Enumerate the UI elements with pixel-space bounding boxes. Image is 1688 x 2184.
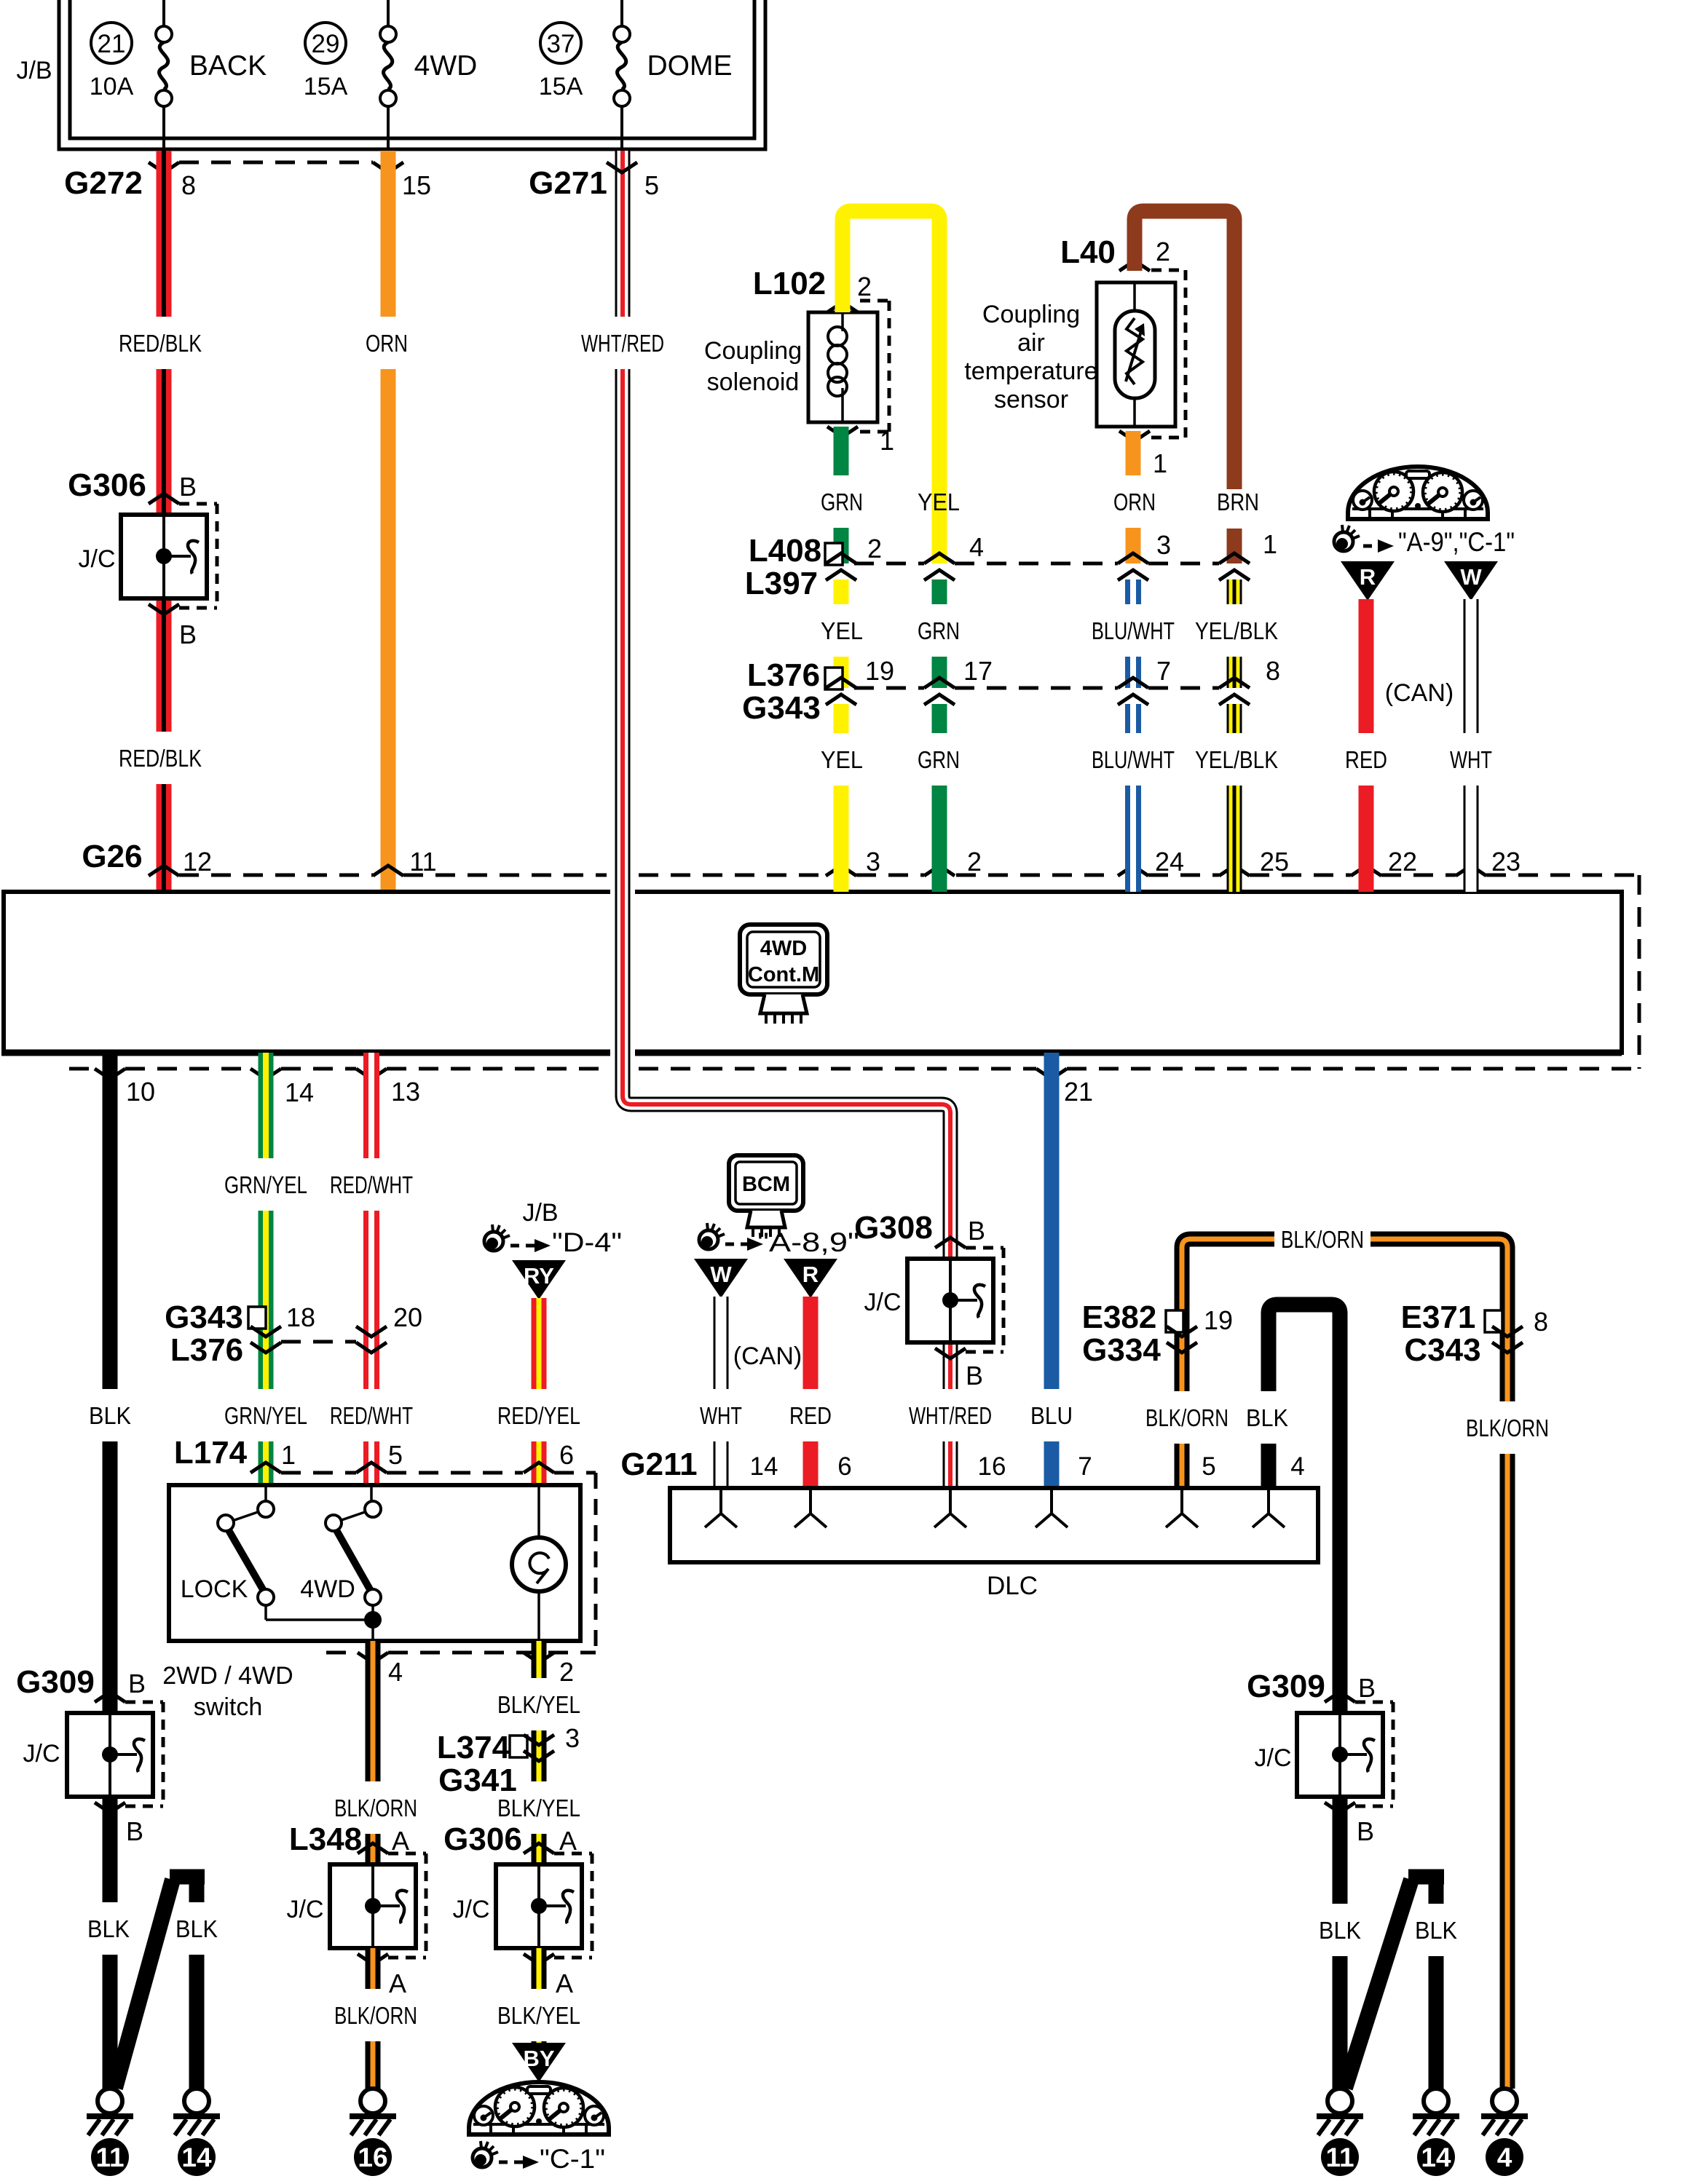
- svg-text:RED/BLK: RED/BLK: [119, 745, 202, 772]
- G26 pin 12: [149, 866, 179, 876]
- module pin 10: [95, 1069, 125, 1079]
- wire GRN/YEL (pin 14 to switch pin 1): [259, 1053, 274, 1158]
- svg-text:R: R: [1360, 564, 1376, 590]
- wire RED/YEL (RY to switch pin 6): [532, 1298, 547, 1389]
- svg-text:DLC: DLC: [987, 1572, 1038, 1600]
- G26 pin 22: [1351, 866, 1381, 876]
- svg-text:YEL: YEL: [821, 617, 863, 644]
- svg-text:18: 18: [286, 1302, 315, 1332]
- wire BRN hook (L40 pin 2 up and over): [1135, 211, 1234, 489]
- module dashed outline: [179, 874, 373, 877]
- ground 11 right: [1328, 2089, 1352, 2113]
- svg-text:15A: 15A: [539, 73, 583, 100]
- svg-text:1: 1: [281, 1440, 296, 1470]
- svg-text:J/C: J/C: [287, 1896, 324, 1923]
- wire BLU/WHT (to G26 pin 24): [1125, 704, 1141, 733]
- svg-text:J/C: J/C: [453, 1896, 490, 1923]
- junction block J/B: [59, 0, 765, 149]
- wire BLU (pin 21 to DLC pin 7): [1044, 1053, 1060, 1389]
- svg-text:L408: L408: [749, 533, 821, 569]
- svg-text:"A-8,9": "A-8,9": [757, 1227, 859, 1257]
- svg-text:29: 29: [312, 30, 340, 58]
- svg-text:G343: G343: [165, 1299, 243, 1335]
- svg-text:24: 24: [1155, 847, 1184, 877]
- fuse 29 15A 4WD: [387, 0, 390, 27]
- svg-text:B: B: [128, 1669, 146, 1698]
- svg-text:BLK: BLK: [1246, 1404, 1288, 1431]
- wire WHT/RED (fuse 37 DOME to DLC pin 16): [623, 154, 950, 1488]
- svg-text:G271: G271: [529, 165, 607, 201]
- svg-text:14: 14: [750, 1452, 778, 1481]
- switch common wire: [266, 1618, 373, 1621]
- svg-text:W: W: [1460, 564, 1482, 590]
- svg-text:10: 10: [126, 1077, 155, 1107]
- wire BLK (DLC pin 4 up over to G309 right): [1261, 1444, 1277, 1488]
- svg-text:"C-1": "C-1": [540, 2144, 605, 2174]
- svg-text:G26: G26: [82, 839, 142, 874]
- svg-text:21: 21: [98, 30, 126, 58]
- 4WD control module box: [4, 892, 1622, 1053]
- svg-text:3: 3: [1156, 530, 1171, 560]
- svg-text:G308: G308: [854, 1210, 933, 1246]
- svg-text:BLU/WHT: BLU/WHT: [1092, 617, 1175, 644]
- svg-text:Coupling: Coupling: [982, 301, 1080, 328]
- svg-text:L376: L376: [747, 657, 820, 693]
- svg-text:G334: G334: [1082, 1332, 1161, 1368]
- coupling solenoid L102 box: [808, 312, 877, 422]
- svg-text:ORN: ORN: [1113, 488, 1156, 515]
- triangle BY: [512, 2043, 566, 2082]
- svg-text:WHT: WHT: [1450, 746, 1492, 773]
- svg-text:4: 4: [1290, 1452, 1304, 1481]
- svg-text:BLU/WHT: BLU/WHT: [1092, 746, 1175, 773]
- svg-text:15A: 15A: [304, 73, 348, 100]
- svg-text:16: 16: [358, 2143, 387, 2172]
- svg-text:Coupling: Coupling: [704, 337, 802, 365]
- svg-text:13: 13: [391, 1077, 420, 1107]
- svg-text:G306: G306: [68, 467, 146, 503]
- svg-text:(CAN): (CAN): [733, 1342, 802, 1370]
- wire RED/WHT (pin 13 to switch pin 5): [363, 1053, 379, 1158]
- svg-text:2: 2: [857, 272, 872, 301]
- svg-text:BLK/ORN: BLK/ORN: [1145, 1404, 1228, 1431]
- module pin 21: [1036, 1069, 1067, 1079]
- 2WD/4WD switch box: [169, 1485, 580, 1641]
- svg-text:4WD: 4WD: [414, 50, 478, 82]
- svg-text:L376: L376: [170, 1332, 243, 1368]
- svg-text:YEL: YEL: [821, 746, 863, 773]
- DLC box: [670, 1488, 1318, 1562]
- svg-text:1: 1: [1263, 529, 1277, 559]
- wire YEL/BLK (to G26 pin 25): [1227, 704, 1242, 733]
- svg-text:YEL/BLK: YEL/BLK: [1195, 617, 1278, 644]
- svg-text:air: air: [1017, 329, 1045, 357]
- svg-text:1: 1: [1153, 448, 1167, 478]
- svg-text:J/C: J/C: [23, 1740, 60, 1768]
- wire BLK (pin 10 to G309): [103, 1053, 118, 1389]
- svg-text:WHT: WHT: [700, 1402, 742, 1429]
- svg-text:14: 14: [1421, 2143, 1451, 2172]
- svg-text:3: 3: [565, 1723, 580, 1753]
- L40 pin 1: [1119, 431, 1150, 441]
- svg-text:BLK: BLK: [1319, 1917, 1361, 1944]
- svg-text:BLU: BLU: [1030, 1402, 1073, 1429]
- svg-text:8: 8: [1534, 1307, 1548, 1337]
- svg-text:15: 15: [402, 170, 431, 200]
- wire BLK (G309 right to ground 11): [1333, 1797, 1348, 1904]
- svg-text:BCM: BCM: [742, 1173, 790, 1196]
- svg-text:11: 11: [95, 2143, 124, 2172]
- svg-text:10A: 10A: [90, 73, 134, 100]
- wire YEL/BLK (L408 to L376): [1227, 579, 1242, 604]
- G26 pin 24: [1118, 866, 1148, 876]
- svg-text:BLK/ORN: BLK/ORN: [334, 1795, 417, 1821]
- DLC pin 7: [1050, 1490, 1053, 1514]
- svg-text:RED/BLK: RED/BLK: [119, 330, 202, 357]
- svg-text:12: 12: [183, 847, 212, 877]
- eye reference C-1: [473, 2148, 492, 2167]
- triangle R: [1341, 561, 1395, 601]
- ground 11 left: [98, 2089, 122, 2113]
- wire YEL (L408 to L376): [834, 579, 849, 604]
- svg-text:14: 14: [285, 1077, 314, 1107]
- svg-text:2: 2: [967, 847, 982, 877]
- svg-text:B: B: [179, 620, 197, 649]
- DLC pin 5: [1180, 1490, 1183, 1514]
- wire YEL hook (L102 pin 2 up and over): [843, 211, 939, 563]
- wire ORN (fuse 29 4WD to pin 11): [381, 151, 396, 317]
- svg-text:WHT/RED: WHT/RED: [581, 330, 664, 357]
- DLC pin 14: [719, 1490, 722, 1514]
- svg-text:G272: G272: [64, 165, 143, 201]
- svg-text:6: 6: [559, 1440, 574, 1470]
- triangle R mid: [784, 1259, 837, 1298]
- fuse 37 15A DOME: [620, 0, 623, 27]
- svg-text:A: A: [559, 1826, 577, 1856]
- svg-text:4: 4: [1497, 2143, 1513, 2172]
- svg-text:L102: L102: [753, 266, 826, 301]
- wire WHT CAN (to G26 pin 23): [1464, 599, 1479, 733]
- switch lower connector row: [326, 1651, 356, 1655]
- svg-text:WHT/RED: WHT/RED: [909, 1402, 992, 1429]
- svg-text:17: 17: [963, 656, 993, 686]
- svg-text:11: 11: [1325, 2143, 1354, 2172]
- svg-text:BLK: BLK: [87, 1915, 130, 1942]
- ground 16: [360, 2089, 385, 2113]
- wire BLK/ORN (L348 to ground 16): [366, 1948, 381, 1989]
- svg-text:"A-9","C-1": "A-9","C-1": [1398, 527, 1515, 557]
- svg-text:1: 1: [880, 426, 894, 456]
- L102 pin 1: [827, 427, 858, 437]
- G26 pin 3: [826, 866, 856, 876]
- svg-text:4WD: 4WD: [300, 1575, 355, 1603]
- svg-text:G343: G343: [742, 690, 821, 726]
- svg-text:BLK: BLK: [89, 1402, 131, 1429]
- svg-text:RED/YEL: RED/YEL: [497, 1402, 580, 1429]
- svg-text:8: 8: [181, 170, 196, 200]
- ground 14 right: [1424, 2089, 1448, 2113]
- svg-text:GRN/YEL: GRN/YEL: [224, 1402, 307, 1429]
- G26 pin 2: [924, 866, 955, 876]
- wire BLK (G309 to ground 11): [103, 1797, 118, 1902]
- wire BLK (right ground 14 jog): [1429, 1877, 1444, 1904]
- wire BLK/YEL (G306 to BY): [532, 1948, 547, 1989]
- svg-text:W: W: [710, 1262, 732, 1287]
- G26 pin 23: [1456, 866, 1486, 876]
- wire BLK/ORN (DLC pin 5 up over to ground 4): [1175, 1444, 1190, 1488]
- triangle RY: [512, 1260, 566, 1299]
- svg-text:8: 8: [1266, 656, 1280, 686]
- instrument cluster icon bottom: [469, 2082, 609, 2134]
- wire YEL (L376 to G26 pin 3): [834, 704, 849, 733]
- DLC pin 4: [1267, 1490, 1270, 1514]
- svg-text:sensor: sensor: [994, 386, 1068, 414]
- wire RED/BLK (fuse 21 BACK to 4WD controller pin 12): [157, 151, 172, 317]
- wire BLK/YEL (switch pin 2 to G306): [532, 1641, 547, 1678]
- svg-text:BLK/ORN: BLK/ORN: [1281, 1226, 1364, 1253]
- svg-text:L374: L374: [437, 1730, 510, 1765]
- svg-text:YEL/BLK: YEL/BLK: [1195, 746, 1278, 773]
- svg-text:7: 7: [1156, 656, 1171, 686]
- svg-text:RED: RED: [789, 1402, 832, 1429]
- wire WHT CAN (W to DLC pin 14): [714, 1297, 729, 1389]
- svg-text:E371: E371: [1401, 1299, 1476, 1335]
- svg-text:14: 14: [181, 2143, 212, 2172]
- svg-text:GRN: GRN: [918, 746, 960, 773]
- wire BLU/WHT (L408 to L376): [1125, 579, 1141, 604]
- svg-text:solenoid: solenoid: [707, 368, 800, 396]
- wire GRN (L102 pin 1 to L408 pin 2): [834, 427, 849, 475]
- 4WD Cont.M icon: [740, 925, 827, 994]
- svg-text:B: B: [1358, 1673, 1376, 1703]
- svg-text:BLK/ORN: BLK/ORN: [1466, 1415, 1549, 1441]
- svg-text:BLK/YEL: BLK/YEL: [497, 2002, 580, 2029]
- svg-text:LOCK: LOCK: [181, 1575, 248, 1603]
- svg-text:RED/WHT: RED/WHT: [330, 1402, 413, 1429]
- svg-text:20: 20: [393, 1302, 422, 1332]
- svg-text:RY: RY: [524, 1263, 554, 1289]
- wire GRN (L376 to G26 pin 2): [932, 704, 947, 733]
- svg-text:J/C: J/C: [79, 545, 116, 573]
- svg-text:BLK: BLK: [175, 1915, 218, 1942]
- svg-text:19: 19: [865, 656, 894, 686]
- svg-text:G211: G211: [620, 1447, 697, 1482]
- svg-text:Cont.M: Cont.M: [748, 963, 819, 986]
- svg-text:A: A: [392, 1826, 409, 1856]
- svg-text:23: 23: [1491, 847, 1521, 877]
- svg-text:GRN/YEL: GRN/YEL: [224, 1171, 307, 1198]
- ground 4 right: [1492, 2089, 1517, 2113]
- svg-text:16: 16: [978, 1452, 1006, 1481]
- svg-text:J/C: J/C: [864, 1289, 902, 1316]
- svg-text:5: 5: [388, 1440, 403, 1470]
- svg-text:BACK: BACK: [189, 50, 267, 82]
- svg-text:3: 3: [866, 847, 880, 877]
- switch LOCK contacts: [264, 1485, 267, 1501]
- svg-text:G309: G309: [1247, 1669, 1325, 1704]
- module pin 14: [251, 1069, 281, 1079]
- eye reference A-9 C-1: [1334, 532, 1353, 551]
- svg-text:C343: C343: [1404, 1332, 1480, 1368]
- G26 pin 11: [373, 866, 403, 876]
- svg-text:2WD / 4WD: 2WD / 4WD: [162, 1662, 293, 1690]
- svg-text:A: A: [556, 1969, 573, 1998]
- DLC pin 6: [809, 1490, 812, 1514]
- svg-text:BY: BY: [523, 2046, 554, 2071]
- svg-text:L348: L348: [289, 1821, 362, 1857]
- svg-text:5: 5: [1202, 1452, 1215, 1481]
- svg-text:11: 11: [409, 847, 436, 877]
- svg-text:37: 37: [547, 30, 575, 58]
- svg-text:"D-4": "D-4": [552, 1227, 622, 1257]
- svg-text:L40: L40: [1060, 234, 1116, 270]
- svg-text:RED: RED: [1345, 746, 1387, 773]
- svg-text:A: A: [389, 1969, 406, 1998]
- svg-text:2: 2: [867, 534, 882, 563]
- triangle W: [1444, 561, 1498, 601]
- svg-text:YEL: YEL: [918, 488, 960, 515]
- svg-text:GRN: GRN: [821, 488, 863, 515]
- DLC pin 16: [949, 1490, 952, 1514]
- wire RED CAN (to G26 pin 22): [1359, 599, 1374, 733]
- switch lamp: [537, 1485, 540, 1538]
- svg-text:(CAN): (CAN): [1385, 679, 1454, 707]
- ground 14 left: [184, 2089, 209, 2113]
- svg-text:GRN: GRN: [918, 617, 960, 644]
- svg-text:BLK/YEL: BLK/YEL: [497, 1795, 580, 1821]
- svg-text:25: 25: [1260, 847, 1289, 877]
- svg-text:4: 4: [969, 532, 984, 562]
- svg-text:BRN: BRN: [1217, 488, 1259, 515]
- svg-text:4: 4: [388, 1657, 403, 1687]
- switch 4WD contacts: [370, 1485, 373, 1501]
- svg-text:G306: G306: [443, 1821, 522, 1857]
- svg-text:19: 19: [1204, 1305, 1233, 1335]
- svg-text:L397: L397: [745, 566, 818, 601]
- svg-text:J/C: J/C: [1255, 1744, 1292, 1772]
- svg-text:BLK: BLK: [1415, 1917, 1457, 1944]
- wire GRN (L408 to L376): [932, 579, 947, 604]
- svg-text:B: B: [179, 472, 197, 502]
- svg-text:L174: L174: [174, 1435, 248, 1471]
- svg-text:21: 21: [1064, 1077, 1093, 1107]
- wire ORN (L40 pin 1 to L408 pin 3): [1126, 431, 1141, 475]
- svg-text:2: 2: [559, 1657, 574, 1687]
- svg-text:B: B: [126, 1816, 143, 1846]
- svg-text:ORN: ORN: [366, 330, 408, 357]
- svg-text:2: 2: [1156, 237, 1170, 266]
- svg-text:G309: G309: [16, 1664, 95, 1700]
- svg-text:temperature: temperature: [964, 357, 1097, 385]
- wire RED CAN (R to DLC pin 6): [803, 1297, 819, 1389]
- module pin 13: [356, 1069, 387, 1079]
- svg-text:R: R: [802, 1262, 819, 1287]
- triangle W mid: [694, 1259, 748, 1298]
- svg-text:RED/WHT: RED/WHT: [330, 1171, 413, 1198]
- svg-text:E382: E382: [1082, 1299, 1157, 1335]
- svg-text:B: B: [966, 1361, 983, 1390]
- wire BLK/ORN (switch pin 4 to L348): [366, 1641, 381, 1781]
- svg-text:6: 6: [837, 1452, 851, 1481]
- G271 pin 5 chevron: [607, 162, 637, 173]
- eye reference A-8,9: [699, 1230, 718, 1249]
- svg-text:G341: G341: [438, 1762, 517, 1798]
- svg-text:BLK/ORN: BLK/ORN: [334, 2002, 417, 2029]
- BCM icon: [729, 1155, 803, 1211]
- svg-text:4WD: 4WD: [760, 937, 807, 960]
- svg-text:switch: switch: [194, 1693, 262, 1721]
- svg-text:BLK/YEL: BLK/YEL: [497, 1691, 580, 1718]
- svg-text:7: 7: [1078, 1452, 1092, 1481]
- wire BLK (ground 14 jog): [189, 1877, 205, 1902]
- svg-text:22: 22: [1388, 847, 1417, 877]
- svg-text:J/B: J/B: [522, 1199, 558, 1227]
- svg-text:B: B: [968, 1216, 985, 1246]
- fuse 21 10A BACK: [162, 0, 165, 27]
- svg-text:J/B: J/B: [16, 57, 52, 84]
- coupling air temperature sensor L40 box: [1097, 282, 1175, 427]
- instrument cluster icon: [1348, 467, 1488, 519]
- svg-text:DOME: DOME: [647, 50, 733, 82]
- G26 pin 25: [1219, 866, 1250, 876]
- svg-text:B: B: [1357, 1816, 1374, 1846]
- svg-text:5: 5: [644, 170, 659, 200]
